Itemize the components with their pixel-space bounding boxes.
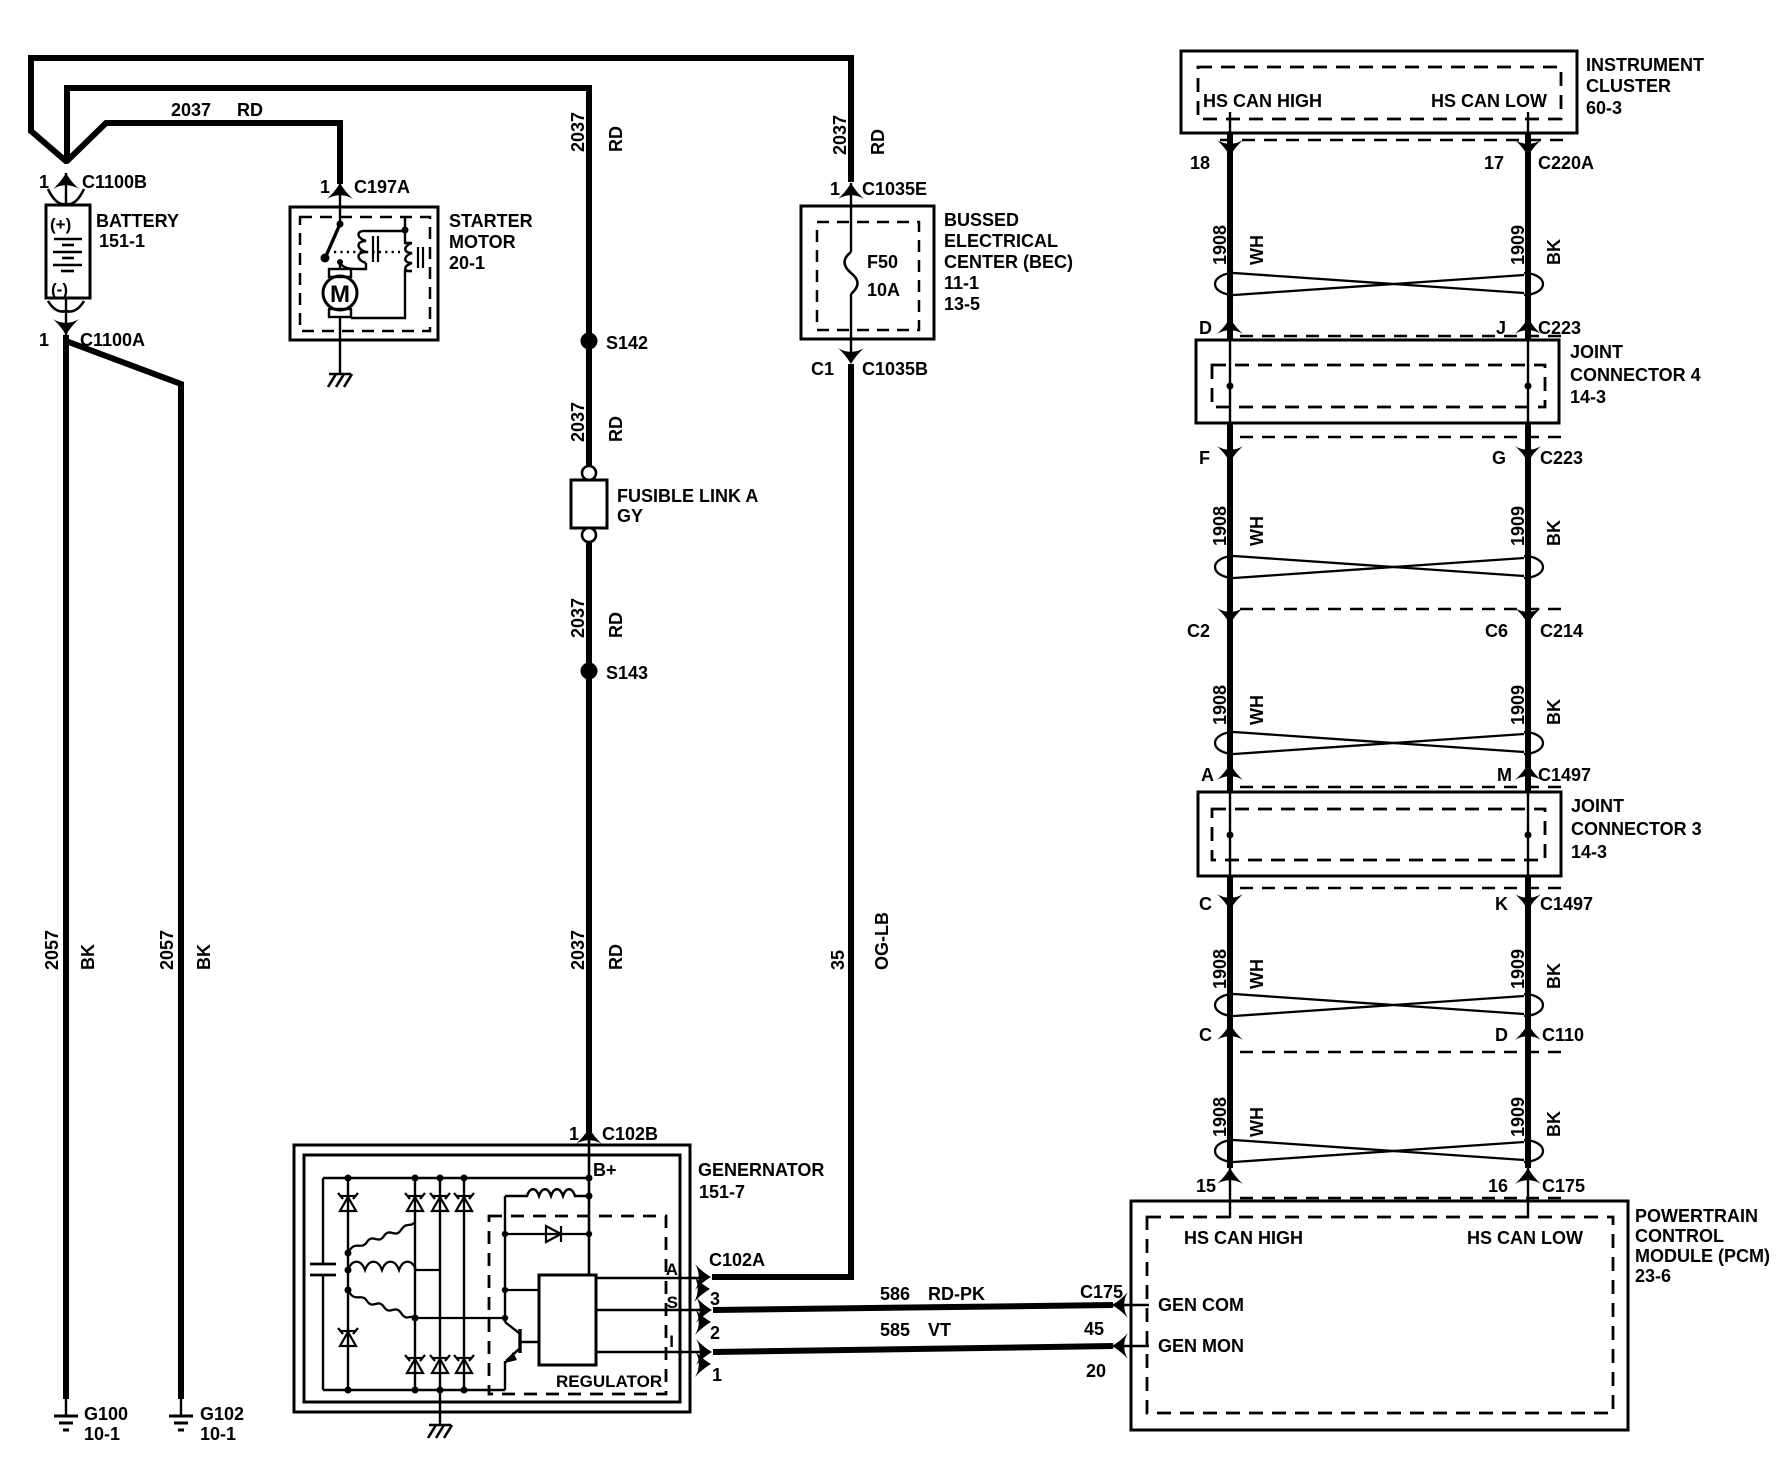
rectifier leg 1 xyxy=(347,1178,349,1390)
svg-text:CENTER (BEC): CENTER (BEC) xyxy=(944,252,1073,272)
wire battery B+ to BEC (top bus) xyxy=(31,58,851,182)
svg-text:BK: BK xyxy=(194,944,214,970)
svg-text:HS CAN LOW: HS CAN LOW xyxy=(1467,1228,1583,1248)
svg-text:A: A xyxy=(666,1260,678,1279)
connector cup battery bottom xyxy=(48,301,84,312)
connector C214 pin C2 xyxy=(1217,608,1243,624)
wire thin into starter motor xyxy=(339,183,341,224)
svg-text:23-6: 23-6 xyxy=(1635,1266,1671,1286)
instrument cluster box xyxy=(1181,51,1577,133)
starter motor box xyxy=(290,207,438,340)
svg-text:C223: C223 xyxy=(1540,448,1583,468)
svg-text:M: M xyxy=(1497,765,1512,785)
fuse F50 10A xyxy=(845,252,858,294)
BEC dashed box xyxy=(817,222,919,330)
svg-text:WH: WH xyxy=(1247,235,1267,265)
svg-text:BK: BK xyxy=(78,944,98,970)
generator inner box xyxy=(304,1155,680,1402)
svg-text:WH: WH xyxy=(1247,1107,1267,1137)
connector C1497 pin M xyxy=(1515,764,1541,780)
wire regulator pin S xyxy=(596,1309,700,1311)
svg-text:1909: 1909 xyxy=(1508,225,1528,265)
wire 2037 RD battery to starter motor xyxy=(66,123,340,184)
wire into PCM GEN MON xyxy=(1112,1345,1149,1347)
svg-text:C6: C6 xyxy=(1485,621,1508,641)
connector C220A pin 18 xyxy=(1217,140,1243,156)
wire 2057 BK to G100 xyxy=(63,335,69,1399)
svg-text:C175: C175 xyxy=(1080,1282,1123,1302)
wire contact to pull-in coil xyxy=(340,263,366,269)
connector C223 pin D xyxy=(1217,318,1243,334)
wire 2057 BK branch to G102 xyxy=(66,341,181,1399)
regulator dashed box xyxy=(489,1216,666,1394)
rectifier leg 2 xyxy=(414,1178,416,1390)
svg-text:13-5: 13-5 xyxy=(944,294,980,314)
svg-text:(+): (+) xyxy=(50,215,71,234)
svg-text:1909: 1909 xyxy=(1508,506,1528,546)
svg-text:HS CAN HIGH: HS CAN HIGH xyxy=(1184,1228,1303,1248)
svg-text:C1: C1 xyxy=(811,359,834,379)
diode D2 top xyxy=(405,1193,425,1211)
svg-text:C102B: C102B xyxy=(602,1124,658,1144)
svg-text:2037: 2037 xyxy=(568,598,588,638)
flyback diode xyxy=(505,1233,589,1235)
stator winding 3 xyxy=(348,1290,415,1318)
connector C110 pin D xyxy=(1515,1024,1541,1040)
battery cell plates xyxy=(53,239,82,271)
svg-text:HS CAN HIGH: HS CAN HIGH xyxy=(1203,91,1322,111)
ground starter motor xyxy=(328,374,352,387)
field winding xyxy=(505,1189,589,1196)
svg-text:20: 20 xyxy=(1086,1361,1106,1381)
svg-text:C197A: C197A xyxy=(354,177,410,197)
svg-text:14-3: 14-3 xyxy=(1571,842,1607,862)
PCM box xyxy=(1131,1201,1628,1430)
twisted pair 5 xyxy=(1215,1140,1543,1162)
svg-text:WH: WH xyxy=(1247,516,1267,546)
joint connector 4 dashed box xyxy=(1212,365,1545,407)
svg-text:C1497: C1497 xyxy=(1538,765,1591,785)
svg-text:RD: RD xyxy=(237,100,263,120)
svg-text:POWERTRAIN: POWERTRAIN xyxy=(1635,1206,1758,1226)
connector C1497 dashed line (lower) xyxy=(1240,887,1566,889)
ground generator xyxy=(439,1390,441,1424)
svg-text:2057: 2057 xyxy=(42,930,62,970)
connector C214 pin C6 xyxy=(1515,608,1541,624)
wire regulator pin I xyxy=(596,1351,700,1353)
svg-text:2037: 2037 xyxy=(568,930,588,970)
node joint connector 3 taps xyxy=(1227,832,1234,839)
svg-text:18: 18 xyxy=(1190,153,1210,173)
svg-text:GY: GY xyxy=(617,506,643,526)
node bus junctions xyxy=(345,1175,593,1182)
svg-text:S: S xyxy=(667,1293,678,1312)
svg-text:2037: 2037 xyxy=(568,402,588,442)
svg-text:C102A: C102A xyxy=(709,1250,765,1270)
diode D3 top xyxy=(430,1193,450,1211)
svg-text:C1497: C1497 xyxy=(1540,894,1593,914)
svg-text:586: 586 xyxy=(880,1284,910,1304)
wire thin below battery xyxy=(65,298,67,336)
svg-text:GEN MON: GEN MON xyxy=(1158,1336,1244,1356)
svg-text:3: 3 xyxy=(710,1289,720,1309)
svg-text:HS CAN LOW: HS CAN LOW xyxy=(1431,91,1547,111)
transistor Q1 xyxy=(505,1322,519,1333)
wire HS CAN HIGH column xyxy=(1229,112,1231,133)
node starter switch top xyxy=(337,221,344,228)
wire 585 VT generator to PCM xyxy=(713,1346,1113,1352)
svg-text:RD: RD xyxy=(868,129,888,155)
svg-text:15: 15 xyxy=(1196,1176,1216,1196)
connector C102A pin 1 arrows xyxy=(696,1339,712,1365)
wire regulator left tap xyxy=(505,1289,539,1291)
wire 35 OG-LB BEC to generator A xyxy=(712,364,851,1277)
connector C175 dashed line xyxy=(1240,1197,1566,1199)
svg-text:GEN COM: GEN COM xyxy=(1158,1295,1244,1315)
svg-text:INSTRUMENT: INSTRUMENT xyxy=(1586,55,1704,75)
svg-text:1908: 1908 xyxy=(1210,949,1230,989)
svg-text:C1035B: C1035B xyxy=(862,359,928,379)
svg-text:10-1: 10-1 xyxy=(200,1424,236,1444)
battery 151-1 box xyxy=(46,205,90,298)
svg-text:I: I xyxy=(669,1332,674,1351)
connector C175 pin 16 xyxy=(1515,1168,1541,1184)
fusible link A terminal ring bottom xyxy=(582,528,596,542)
stator winding 1 xyxy=(348,1222,415,1253)
connector C223 pin J xyxy=(1515,318,1541,334)
capacitor xyxy=(310,1263,336,1266)
svg-text:C175: C175 xyxy=(1542,1176,1585,1196)
coil core bars xyxy=(372,236,374,262)
svg-text:60-3: 60-3 xyxy=(1586,98,1622,118)
svg-text:GENERNATOR: GENERNATOR xyxy=(698,1160,824,1180)
wire thin into BEC xyxy=(850,183,852,252)
svg-text:REGULATOR: REGULATOR xyxy=(556,1372,662,1391)
capacitor leg xyxy=(322,1178,324,1263)
svg-text:2037: 2037 xyxy=(568,112,588,152)
stator winding 2 xyxy=(348,1262,440,1270)
connector C220A dashed line xyxy=(1220,139,1566,141)
diode D4 bottom xyxy=(454,1355,474,1373)
svg-text:BK: BK xyxy=(1544,239,1564,265)
connector C1035B pin C1 xyxy=(838,348,864,364)
ground G102 xyxy=(169,1416,193,1430)
node bottom bus junctions xyxy=(345,1387,468,1394)
generator outer box xyxy=(294,1145,690,1412)
svg-text:20-1: 20-1 xyxy=(449,253,485,273)
connector C1497 pin K xyxy=(1515,894,1541,910)
svg-text:11-1: 11-1 xyxy=(944,273,979,293)
wire field left leg xyxy=(504,1196,506,1322)
svg-text:151-1: 151-1 xyxy=(99,231,145,251)
node solenoid feed xyxy=(402,227,409,234)
generator top bus xyxy=(323,1177,589,1179)
joint connector 3 box xyxy=(1198,792,1561,876)
svg-text:14-3: 14-3 xyxy=(1570,387,1606,407)
node winding taps xyxy=(345,1250,419,1322)
connector C102A pin A arrows xyxy=(695,1264,711,1290)
wire 2037 RD S142 to fusible link xyxy=(586,341,592,467)
wire 2037 RD link to S143 xyxy=(586,542,592,671)
svg-text:C2: C2 xyxy=(1187,621,1210,641)
svg-text:CONTROL: CONTROL xyxy=(1635,1226,1724,1246)
svg-text:1: 1 xyxy=(39,330,49,350)
starter feed vertical with hold-in coil xyxy=(351,217,412,318)
svg-text:BK: BK xyxy=(1544,1111,1564,1137)
svg-text:RD: RD xyxy=(606,416,626,442)
svg-text:C: C xyxy=(1199,894,1212,914)
diode D4 top xyxy=(454,1193,474,1211)
fusible link A body xyxy=(571,480,607,528)
wire motor to ground xyxy=(339,317,341,373)
connector arrow GEN MON xyxy=(1112,1333,1128,1359)
ground G100 xyxy=(54,1416,78,1430)
svg-text:S142: S142 xyxy=(606,333,648,353)
connector C102B pin 1 xyxy=(576,1128,602,1144)
svg-text:CONNECTOR 3: CONNECTOR 3 xyxy=(1571,819,1702,839)
svg-text:CONNECTOR 4: CONNECTOR 4 xyxy=(1570,365,1701,385)
wire fuse to C1035B xyxy=(850,294,852,352)
connector C223 pin F xyxy=(1217,446,1243,462)
twisted pair 1 xyxy=(1215,273,1543,295)
connector cup battery top xyxy=(48,189,84,204)
svg-text:BK: BK xyxy=(1544,520,1564,546)
svg-text:FUSIBLE LINK A: FUSIBLE LINK A xyxy=(617,486,758,506)
connector C197A pin 1 xyxy=(327,183,353,199)
svg-text:K: K xyxy=(1495,894,1508,914)
starter motor dashed box xyxy=(300,217,430,331)
svg-text:10A: 10A xyxy=(867,280,900,300)
svg-text:585: 585 xyxy=(880,1320,910,1340)
svg-text:BUSSED: BUSSED xyxy=(944,210,1019,230)
BEC box xyxy=(801,206,934,339)
splice S143 xyxy=(581,663,598,680)
starter solenoid switch blade xyxy=(326,224,340,256)
diode D1 bottom xyxy=(338,1328,358,1346)
svg-text:1: 1 xyxy=(320,177,330,197)
wire contact to motor xyxy=(339,262,341,270)
connector C214 dashed line xyxy=(1240,608,1566,610)
starter motor M xyxy=(329,269,351,277)
twisted pair 4 xyxy=(1215,994,1543,1016)
hold-in coil core bars xyxy=(417,247,419,268)
svg-text:MOTOR: MOTOR xyxy=(449,232,516,252)
svg-text:D: D xyxy=(1495,1025,1508,1045)
wire winding3 to transistor xyxy=(415,1317,505,1319)
wire junction diagonal left xyxy=(31,131,67,162)
svg-text:BATTERY: BATTERY xyxy=(96,211,179,231)
svg-text:10-1: 10-1 xyxy=(84,1424,120,1444)
svg-text:1909: 1909 xyxy=(1508,685,1528,725)
svg-text:M: M xyxy=(330,281,350,308)
svg-text:C: C xyxy=(1199,1025,1212,1045)
svg-text:2037: 2037 xyxy=(171,100,211,120)
svg-text:1908: 1908 xyxy=(1210,1097,1230,1137)
wire regulator pin A xyxy=(596,1277,700,1279)
svg-text:OG-LB: OG-LB xyxy=(872,912,892,970)
diode D1 top xyxy=(338,1193,358,1211)
svg-text:WH: WH xyxy=(1247,959,1267,989)
wire thin into battery xyxy=(65,173,67,205)
joint connector 3 dashed box xyxy=(1212,809,1545,860)
svg-text:1: 1 xyxy=(39,172,49,192)
svg-text:S143: S143 xyxy=(606,663,648,683)
svg-text:16: 16 xyxy=(1488,1176,1508,1196)
instrument cluster dashed box xyxy=(1198,67,1561,119)
connector C175 pin 15 xyxy=(1217,1168,1243,1184)
connector C1035E pin 1 xyxy=(838,183,864,199)
regulator box xyxy=(539,1275,596,1365)
wire B+ vertical xyxy=(588,1132,591,1277)
svg-text:BK: BK xyxy=(1544,699,1564,725)
svg-text:1908: 1908 xyxy=(1210,225,1230,265)
wire coil top to feed xyxy=(366,230,405,232)
svg-text:G: G xyxy=(1492,448,1506,468)
svg-text:RD: RD xyxy=(606,126,626,152)
svg-text:2057: 2057 xyxy=(157,930,177,970)
rectifier leg 3 xyxy=(439,1178,441,1390)
svg-text:1908: 1908 xyxy=(1210,506,1230,546)
connector C102A pin 3 arrows xyxy=(696,1297,712,1323)
svg-text:JOINT: JOINT xyxy=(1571,796,1624,816)
svg-text:G102: G102 xyxy=(200,1404,244,1424)
starter solenoid linkage (dotted) xyxy=(334,251,400,254)
wire 2037 RD battery to S142 column xyxy=(67,88,589,336)
svg-text:RD-PK: RD-PK xyxy=(928,1284,985,1304)
svg-text:17: 17 xyxy=(1484,153,1504,173)
svg-text:BK: BK xyxy=(1544,963,1564,989)
svg-text:B+: B+ xyxy=(593,1160,617,1180)
svg-text:A: A xyxy=(1201,765,1214,785)
rectifier leg 4 xyxy=(463,1178,465,1390)
starter pull-in coil xyxy=(359,231,367,263)
diode D2 bottom xyxy=(405,1355,425,1373)
svg-text:(-): (-) xyxy=(51,280,68,299)
connector C110 pin C xyxy=(1217,1024,1243,1040)
svg-text:F50: F50 xyxy=(867,252,898,272)
svg-text:F: F xyxy=(1199,448,1210,468)
svg-text:1909: 1909 xyxy=(1508,949,1528,989)
connector C223 pin G xyxy=(1515,446,1541,462)
connector C1497 dashed line xyxy=(1240,786,1566,788)
connector C223 dashed line xyxy=(1240,335,1566,337)
diode D3 bottom xyxy=(430,1355,450,1373)
splice S142 xyxy=(581,333,598,350)
wire HS CAN LOW column xyxy=(1527,112,1529,133)
svg-text:D: D xyxy=(1199,318,1212,338)
svg-text:151-7: 151-7 xyxy=(699,1182,745,1202)
generator bottom bus xyxy=(323,1389,505,1391)
connector C223 dashed line (lower) xyxy=(1240,436,1566,438)
svg-text:JOINT: JOINT xyxy=(1570,342,1623,362)
svg-text:2037: 2037 xyxy=(830,115,850,155)
svg-text:VT: VT xyxy=(928,1320,951,1340)
fusible link A terminal ring top xyxy=(582,466,596,480)
svg-text:1909: 1909 xyxy=(1508,1097,1528,1137)
node battery junction xyxy=(63,158,69,164)
svg-text:C1035E: C1035E xyxy=(862,179,927,199)
wire 2037 RD S143 to generator xyxy=(586,671,592,1132)
svg-text:2: 2 xyxy=(710,1323,720,1343)
svg-text:RD: RD xyxy=(606,944,626,970)
svg-text:C220A: C220A xyxy=(1538,153,1594,173)
svg-text:RD: RD xyxy=(606,612,626,638)
svg-text:STARTER: STARTER xyxy=(449,211,533,231)
svg-text:45: 45 xyxy=(1084,1319,1104,1339)
wire 586 RD-PK generator to PCM xyxy=(713,1305,1113,1310)
svg-text:C214: C214 xyxy=(1540,621,1583,641)
twisted pair 3 xyxy=(1215,732,1543,754)
wire into PCM GEN COM xyxy=(1112,1304,1149,1306)
svg-text:35: 35 xyxy=(828,950,848,970)
twisted pair 2 xyxy=(1215,556,1543,578)
connector C1100A pin 1 xyxy=(53,319,79,335)
svg-text:1: 1 xyxy=(830,179,840,199)
svg-text:WH: WH xyxy=(1247,695,1267,725)
connector C1497 pin A xyxy=(1217,764,1243,780)
svg-text:1: 1 xyxy=(569,1124,579,1144)
connector C220A pin 17 xyxy=(1515,140,1541,156)
svg-text:CLUSTER: CLUSTER xyxy=(1586,76,1671,96)
svg-text:MODULE (PCM): MODULE (PCM) xyxy=(1635,1246,1770,1266)
connector C175 arrow GEN COM xyxy=(1112,1292,1128,1318)
svg-text:1: 1 xyxy=(712,1365,722,1385)
joint connector 4 box xyxy=(1196,340,1559,423)
connector C110 dashed line xyxy=(1240,1051,1566,1053)
svg-text:C1100B: C1100B xyxy=(82,172,147,192)
svg-text:G100: G100 xyxy=(84,1404,128,1424)
PCM dashed box xyxy=(1147,1217,1613,1413)
svg-text:C110: C110 xyxy=(1542,1025,1584,1045)
node starter switch contact xyxy=(337,259,343,265)
svg-text:ELECTRICAL: ELECTRICAL xyxy=(944,231,1058,251)
connector C1497 pin C xyxy=(1217,894,1243,910)
node joint connector 4 taps xyxy=(1227,383,1234,390)
svg-text:1908: 1908 xyxy=(1210,685,1230,725)
